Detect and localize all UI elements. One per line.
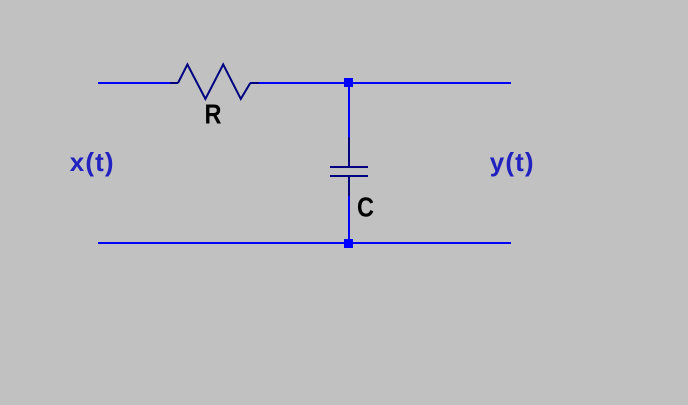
- node junction bottom: [344, 239, 353, 248]
- resistor R: [170, 64, 259, 99]
- svg-text:C: C: [357, 193, 374, 223]
- node junction top: [344, 78, 353, 87]
- wire vertical upper segment: [348, 84, 350, 137]
- wire vertical lower segment: [348, 196, 350, 243]
- capacitor C: [330, 137, 368, 196]
- svg-text:y(t): y(t): [490, 147, 535, 177]
- svg-text:x(t): x(t): [70, 147, 115, 177]
- wire top-left segment: [98, 82, 170, 84]
- wire top-middle-right segment: [259, 82, 511, 84]
- svg-text:R: R: [205, 100, 222, 130]
- wire bottom segment: [98, 242, 511, 244]
